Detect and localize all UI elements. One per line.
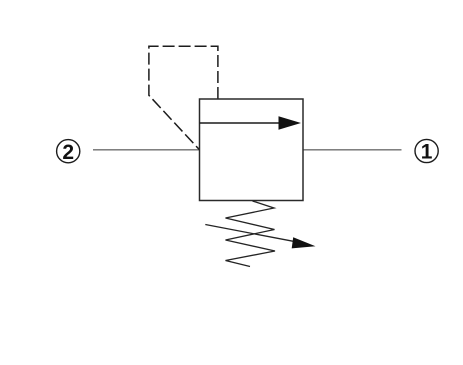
svg-text:1: 1 bbox=[421, 141, 433, 164]
valve body V1 bbox=[200, 99, 304, 201]
svg-text:2: 2 bbox=[62, 141, 74, 164]
wire valve-to-port1 bbox=[303, 149, 402, 151]
spring bbox=[226, 201, 276, 267]
port 1 bbox=[415, 139, 438, 163]
port 2 bbox=[57, 140, 80, 164]
flow path arrow bbox=[200, 116, 302, 129]
pilot line (dashed) bbox=[149, 46, 218, 150]
wire port2-to-valve bbox=[93, 149, 200, 151]
adjustment arrow bbox=[205, 225, 315, 249]
